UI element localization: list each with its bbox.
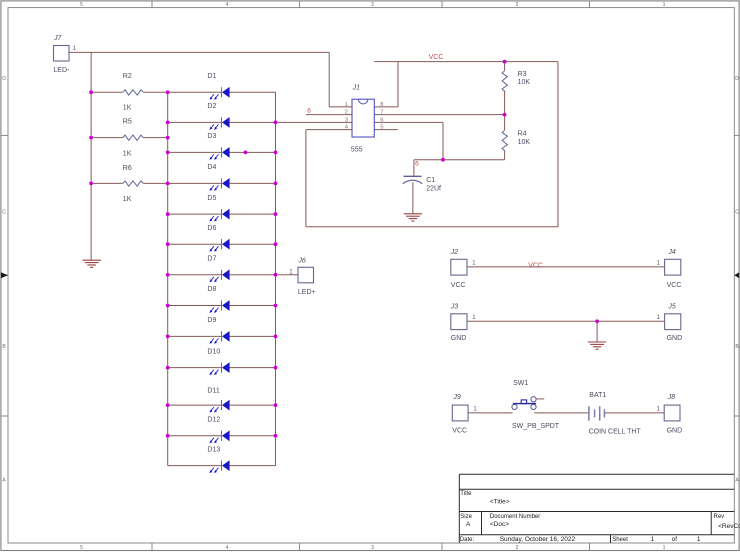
svg-text:R3: R3 <box>518 71 527 78</box>
svg-text:<Title>: <Title> <box>490 498 510 505</box>
svg-text:R6: R6 <box>123 165 132 172</box>
svg-text:Rev: Rev <box>714 514 725 520</box>
svg-text:1K: 1K <box>123 196 132 203</box>
svg-text:1K: 1K <box>123 150 132 157</box>
svg-text:5: 5 <box>380 125 383 131</box>
svg-text:Sheet: Sheet <box>612 537 628 543</box>
svg-text:D5: D5 <box>207 195 216 202</box>
svg-text:4: 4 <box>226 2 229 8</box>
svg-text:J4: J4 <box>667 249 676 256</box>
svg-text:D: D <box>2 76 6 82</box>
svg-text:3: 3 <box>371 2 374 8</box>
svg-text:<RevCod: <RevCod <box>718 523 740 530</box>
svg-text:D7: D7 <box>207 256 216 263</box>
svg-text:3: 3 <box>371 545 374 551</box>
svg-text:Date:: Date: <box>460 537 475 543</box>
svg-text:D4: D4 <box>207 164 216 171</box>
svg-text:BAT1: BAT1 <box>589 392 606 399</box>
svg-text:C: C <box>735 210 739 216</box>
svg-text:GND: GND <box>667 428 683 435</box>
svg-text:C1: C1 <box>426 177 435 184</box>
svg-text:555: 555 <box>351 146 363 153</box>
svg-text:Document Number: Document Number <box>490 514 540 520</box>
svg-text:10K: 10K <box>518 79 531 86</box>
svg-text:D10: D10 <box>207 348 220 355</box>
svg-text:5: 5 <box>80 2 83 8</box>
svg-text:Size: Size <box>460 514 472 520</box>
svg-text:1: 1 <box>663 545 666 551</box>
svg-text:3: 3 <box>345 118 348 124</box>
svg-text:D: D <box>735 76 739 82</box>
svg-text:2: 2 <box>516 2 519 8</box>
svg-text:R2: R2 <box>123 73 132 80</box>
svg-text:1: 1 <box>663 2 666 8</box>
svg-text:1: 1 <box>697 536 701 543</box>
svg-text:1K: 1K <box>123 105 132 112</box>
svg-text:2: 2 <box>516 545 519 551</box>
svg-text:<Doc>: <Doc> <box>490 521 509 528</box>
svg-text:J7: J7 <box>53 35 63 42</box>
svg-text:D3: D3 <box>207 133 216 140</box>
svg-text:VCC: VCC <box>429 54 444 61</box>
svg-text:A: A <box>466 521 471 528</box>
svg-text:J9: J9 <box>452 394 461 401</box>
svg-text:J1: J1 <box>352 85 361 92</box>
svg-text:D9: D9 <box>207 317 216 324</box>
svg-text:SW1: SW1 <box>513 380 528 387</box>
svg-text:D2: D2 <box>207 103 216 110</box>
svg-text:J5: J5 <box>667 304 676 311</box>
svg-text:GND: GND <box>667 335 683 342</box>
svg-text:R4: R4 <box>518 131 527 138</box>
svg-text:J3: J3 <box>450 304 459 311</box>
svg-text:6: 6 <box>307 108 311 115</box>
svg-text:10K: 10K <box>518 139 531 146</box>
svg-text:6: 6 <box>415 161 419 168</box>
svg-text:22Uf: 22Uf <box>426 186 441 193</box>
svg-text:SW_PB_SPDT: SW_PB_SPDT <box>512 423 560 430</box>
svg-text:1: 1 <box>345 102 348 108</box>
svg-text:D8: D8 <box>207 286 216 293</box>
svg-text:D1: D1 <box>207 73 216 80</box>
svg-text:VCC: VCC <box>452 428 467 435</box>
svg-text:7: 7 <box>380 110 383 116</box>
svg-text:C: C <box>2 210 6 216</box>
svg-text:J2: J2 <box>450 249 459 256</box>
svg-text:2: 2 <box>345 110 348 116</box>
svg-text:VCC: VCC <box>528 262 543 269</box>
svg-text:GND: GND <box>451 335 467 342</box>
svg-text:1: 1 <box>651 536 655 543</box>
svg-text:R5: R5 <box>123 118 132 125</box>
svg-text:4: 4 <box>226 545 229 551</box>
svg-text:D13: D13 <box>207 446 220 453</box>
svg-text:J6: J6 <box>297 257 306 264</box>
svg-text:Sunday, October 16, 2022: Sunday, October 16, 2022 <box>500 536 576 543</box>
svg-text:5: 5 <box>80 545 83 551</box>
svg-text:of: of <box>672 536 678 543</box>
svg-text:Title: Title <box>460 491 472 497</box>
svg-text:COIN CELL THT: COIN CELL THT <box>589 429 642 436</box>
svg-text:D12: D12 <box>207 417 220 424</box>
svg-text:LED+: LED+ <box>298 289 316 296</box>
svg-text:J8: J8 <box>667 394 676 401</box>
svg-text:VCC: VCC <box>667 282 682 289</box>
svg-text:6: 6 <box>380 118 383 124</box>
svg-text:D6: D6 <box>207 225 216 232</box>
svg-text:LED-: LED- <box>53 67 70 74</box>
svg-text:D11: D11 <box>207 388 219 395</box>
svg-text:8: 8 <box>380 102 383 108</box>
svg-text:VCC: VCC <box>451 282 466 289</box>
